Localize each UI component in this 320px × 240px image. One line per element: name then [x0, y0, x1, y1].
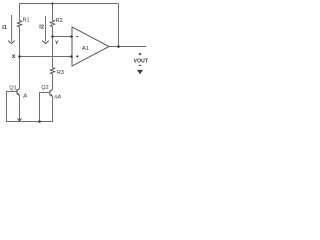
transistor Q2 emitter arrowhead [51, 94, 53, 97]
wire Q2 emitter down [52, 97, 54, 122]
transistor Q2 [50, 90, 53, 97]
current arrow I2 [42, 16, 49, 44]
node X junction dot [18, 55, 21, 58]
wire feedback from top rail down to output node [118, 4, 120, 47]
svg-text:R2: R2 [56, 18, 63, 24]
wire node Y to op-amp minus input [53, 36, 72, 38]
resistor R3 [50, 68, 54, 75]
op-amp plus input sign [76, 55, 78, 57]
svg-text:A: A [22, 94, 27, 100]
VOUT minus sign [139, 64, 142, 66]
wire right branch upper (top rail to R2) [52, 4, 54, 21]
wire Q2 base to bottom rail [40, 93, 50, 122]
svg-text:Y: Y [55, 41, 59, 47]
svg-text:Q2: Q2 [41, 85, 48, 91]
wire R2 to node Y [52, 27, 54, 37]
node Y junction dot [51, 35, 54, 38]
wire left branch upper (top rail to R1) [19, 4, 21, 21]
wire node Y down to R3 [52, 37, 54, 68]
wire Q1 base to bottom rail [7, 92, 18, 122]
svg-text:I1: I1 [2, 25, 7, 31]
junction dot Q2 base at bottom rail [38, 120, 41, 123]
VOUT plus sign [139, 53, 142, 55]
svg-text:I2: I2 [39, 25, 44, 31]
resistor R2 [50, 20, 54, 27]
wire node X to op-amp plus input [20, 56, 72, 58]
transistor Q1 emitter arrowhead [18, 93, 20, 96]
svg-text:A1: A1 [82, 46, 89, 52]
resistor R1 [17, 21, 21, 28]
ground symbol below VOUT [137, 70, 143, 74]
wire op-amp output to VOUT terminal [109, 46, 147, 48]
svg-text:nA: nA [54, 95, 61, 101]
wire R3 to Q2 collector [52, 74, 54, 89]
wire top rail [20, 3, 119, 5]
svg-text:Q1: Q1 [9, 85, 16, 91]
junction dot op-amp minus input [70, 35, 73, 38]
svg-text:x: x [12, 53, 16, 60]
junction dot op-amp plus input [70, 55, 73, 58]
op-amp U1 triangle [72, 27, 109, 66]
svg-text:R3: R3 [57, 70, 64, 76]
svg-text:VOUT: VOUT [134, 59, 149, 65]
wire bottom rail [6, 121, 53, 123]
arrowhead Q1 emitter at bottom rail [18, 118, 22, 121]
junction dot R2 at top rail [51, 2, 53, 4]
wire R1 to node X to Q1 collector [19, 27, 21, 88]
wire Q1 emitter down [19, 96, 21, 121]
transistor Q1 [17, 89, 20, 96]
op-amp minus input sign [76, 36, 78, 38]
current arrow I1 [8, 15, 15, 44]
svg-text:R1: R1 [23, 18, 30, 24]
junction dot output node [117, 45, 120, 48]
